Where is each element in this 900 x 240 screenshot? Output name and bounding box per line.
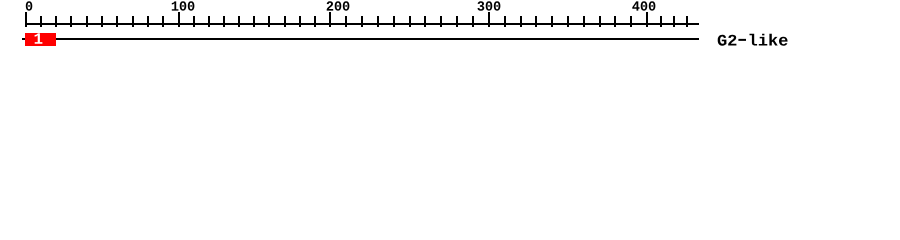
minor ticks group (40, 16, 688, 27)
tick label 300 (478, 1, 501, 11)
major tick 400 (646, 12, 648, 27)
tick label 0 (26, 1, 33, 10)
domain number 1 (35, 33, 43, 44)
family label G2-like (718, 34, 788, 46)
tick label 100 (172, 1, 195, 10)
ruler line (25, 23, 699, 25)
major tick 300 (488, 12, 490, 27)
tick label 200 (327, 1, 350, 10)
major tick 0 (25, 12, 27, 27)
major tick 100 (178, 12, 180, 27)
domain box 1 (red) (25, 33, 56, 46)
major tick 200 (329, 12, 331, 27)
tick label 400 (632, 1, 655, 10)
protein backbone line (22, 38, 699, 40)
